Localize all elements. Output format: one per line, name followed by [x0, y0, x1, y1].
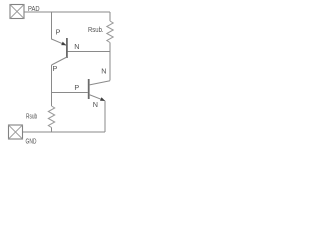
svg-text:N: N — [101, 66, 106, 75]
resistor Rsub. (well resistance) — [107, 21, 113, 43]
wire top-right drop — [109, 12, 111, 21]
resistor Rsub (substrate resistance) — [48, 106, 54, 128]
transistor Q1 (PNP) — [52, 38, 67, 65]
transistor Q2 (NPN) — [89, 79, 110, 101]
svg-text:P: P — [56, 28, 61, 37]
wire node A to Q2 base — [52, 92, 88, 94]
pad symbol GND — [9, 125, 23, 139]
svg-text:N: N — [93, 100, 98, 109]
svg-text:Rsub: Rsub — [26, 114, 37, 121]
wire PAD top rail — [24, 11, 110, 13]
wire Rsub to bottom rail — [51, 128, 53, 133]
svg-text:P: P — [53, 64, 58, 73]
svg-text:GND: GND — [26, 139, 37, 146]
wire right column (Rsub to Q2 collector) — [109, 43, 111, 81]
wire Q1 emitter from top rail — [52, 12, 67, 45]
svg-text:P: P — [74, 83, 79, 92]
wire Q1 collector down to node A — [51, 65, 53, 106]
wire bottom rail (GND) — [23, 131, 106, 133]
wire Q1 base to right column — [67, 51, 110, 53]
pad symbol PAD — [10, 5, 24, 19]
svg-text:Rsub.: Rsub. — [88, 27, 104, 34]
wire Q2 emitter down — [104, 101, 106, 132]
svg-text:N: N — [74, 42, 79, 51]
